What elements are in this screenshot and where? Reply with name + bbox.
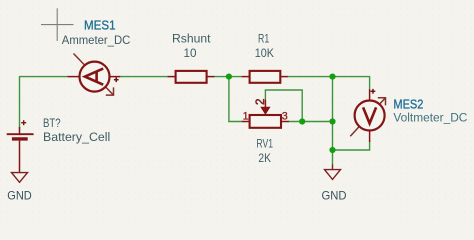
ammeter arrow [74, 54, 114, 96]
svg-text:GND: GND [7, 189, 32, 203]
svg-text:BT?: BT? [43, 116, 61, 130]
svg-text:R1: R1 [258, 31, 269, 45]
resistor R1 [242, 71, 288, 83]
wire battery top [20, 77, 370, 165]
wire RV1 wiper loop [265, 90, 302, 122]
svg-text:3: 3 [282, 111, 288, 123]
wire branch down to RV1 pin1 [229, 77, 242, 122]
sheet origin crosshair [41, 8, 74, 41]
wire R1 to voltmeter corner [288, 77, 370, 90]
wire Rshunt to R1 [214, 76, 241, 78]
svg-text:Battery_Cell: Battery_Cell [43, 130, 110, 144]
junction wiper/pin3 [299, 118, 305, 124]
junction Rshunt/R1 [226, 74, 232, 80]
potentiometer RV1 [242, 100, 289, 128]
ground right [325, 165, 341, 180]
svg-text:GND: GND [322, 188, 347, 202]
wire ammeter to Rshunt [120, 76, 167, 78]
RV1 wiper arrow [261, 107, 270, 114]
junction rail voltmeter bottom [329, 147, 335, 153]
svg-text:10: 10 [184, 46, 197, 60]
svg-text:1: 1 [243, 111, 249, 123]
svg-text:Ammeter_DC: Ammeter_DC [62, 33, 131, 47]
voltmeter plus [371, 89, 376, 94]
voltmeter arrow [350, 98, 385, 137]
svg-text:RV1: RV1 [256, 136, 273, 150]
svg-text:2K: 2K [258, 151, 271, 165]
junction rail top [329, 74, 335, 80]
svg-text:Voltmeter_DC: Voltmeter_DC [393, 110, 467, 124]
ammeter plus [114, 77, 119, 82]
junction rail RV1 [329, 118, 335, 124]
wire right rail [332, 77, 334, 165]
battery BT? [7, 120, 34, 172]
svg-text:2: 2 [254, 99, 267, 105]
resistor Rshunt [168, 71, 215, 83]
wire RV1 pin3 to rail [289, 121, 333, 123]
voltmeter MES2 [355, 89, 385, 142]
svg-text:10K: 10K [255, 46, 274, 60]
ground left [12, 173, 28, 183]
svg-text:Rshunt: Rshunt [172, 31, 211, 45]
wire voltmeter bottom [333, 142, 370, 150]
ammeter MES1 [68, 62, 121, 92]
svg-text:MES1: MES1 [84, 18, 116, 32]
